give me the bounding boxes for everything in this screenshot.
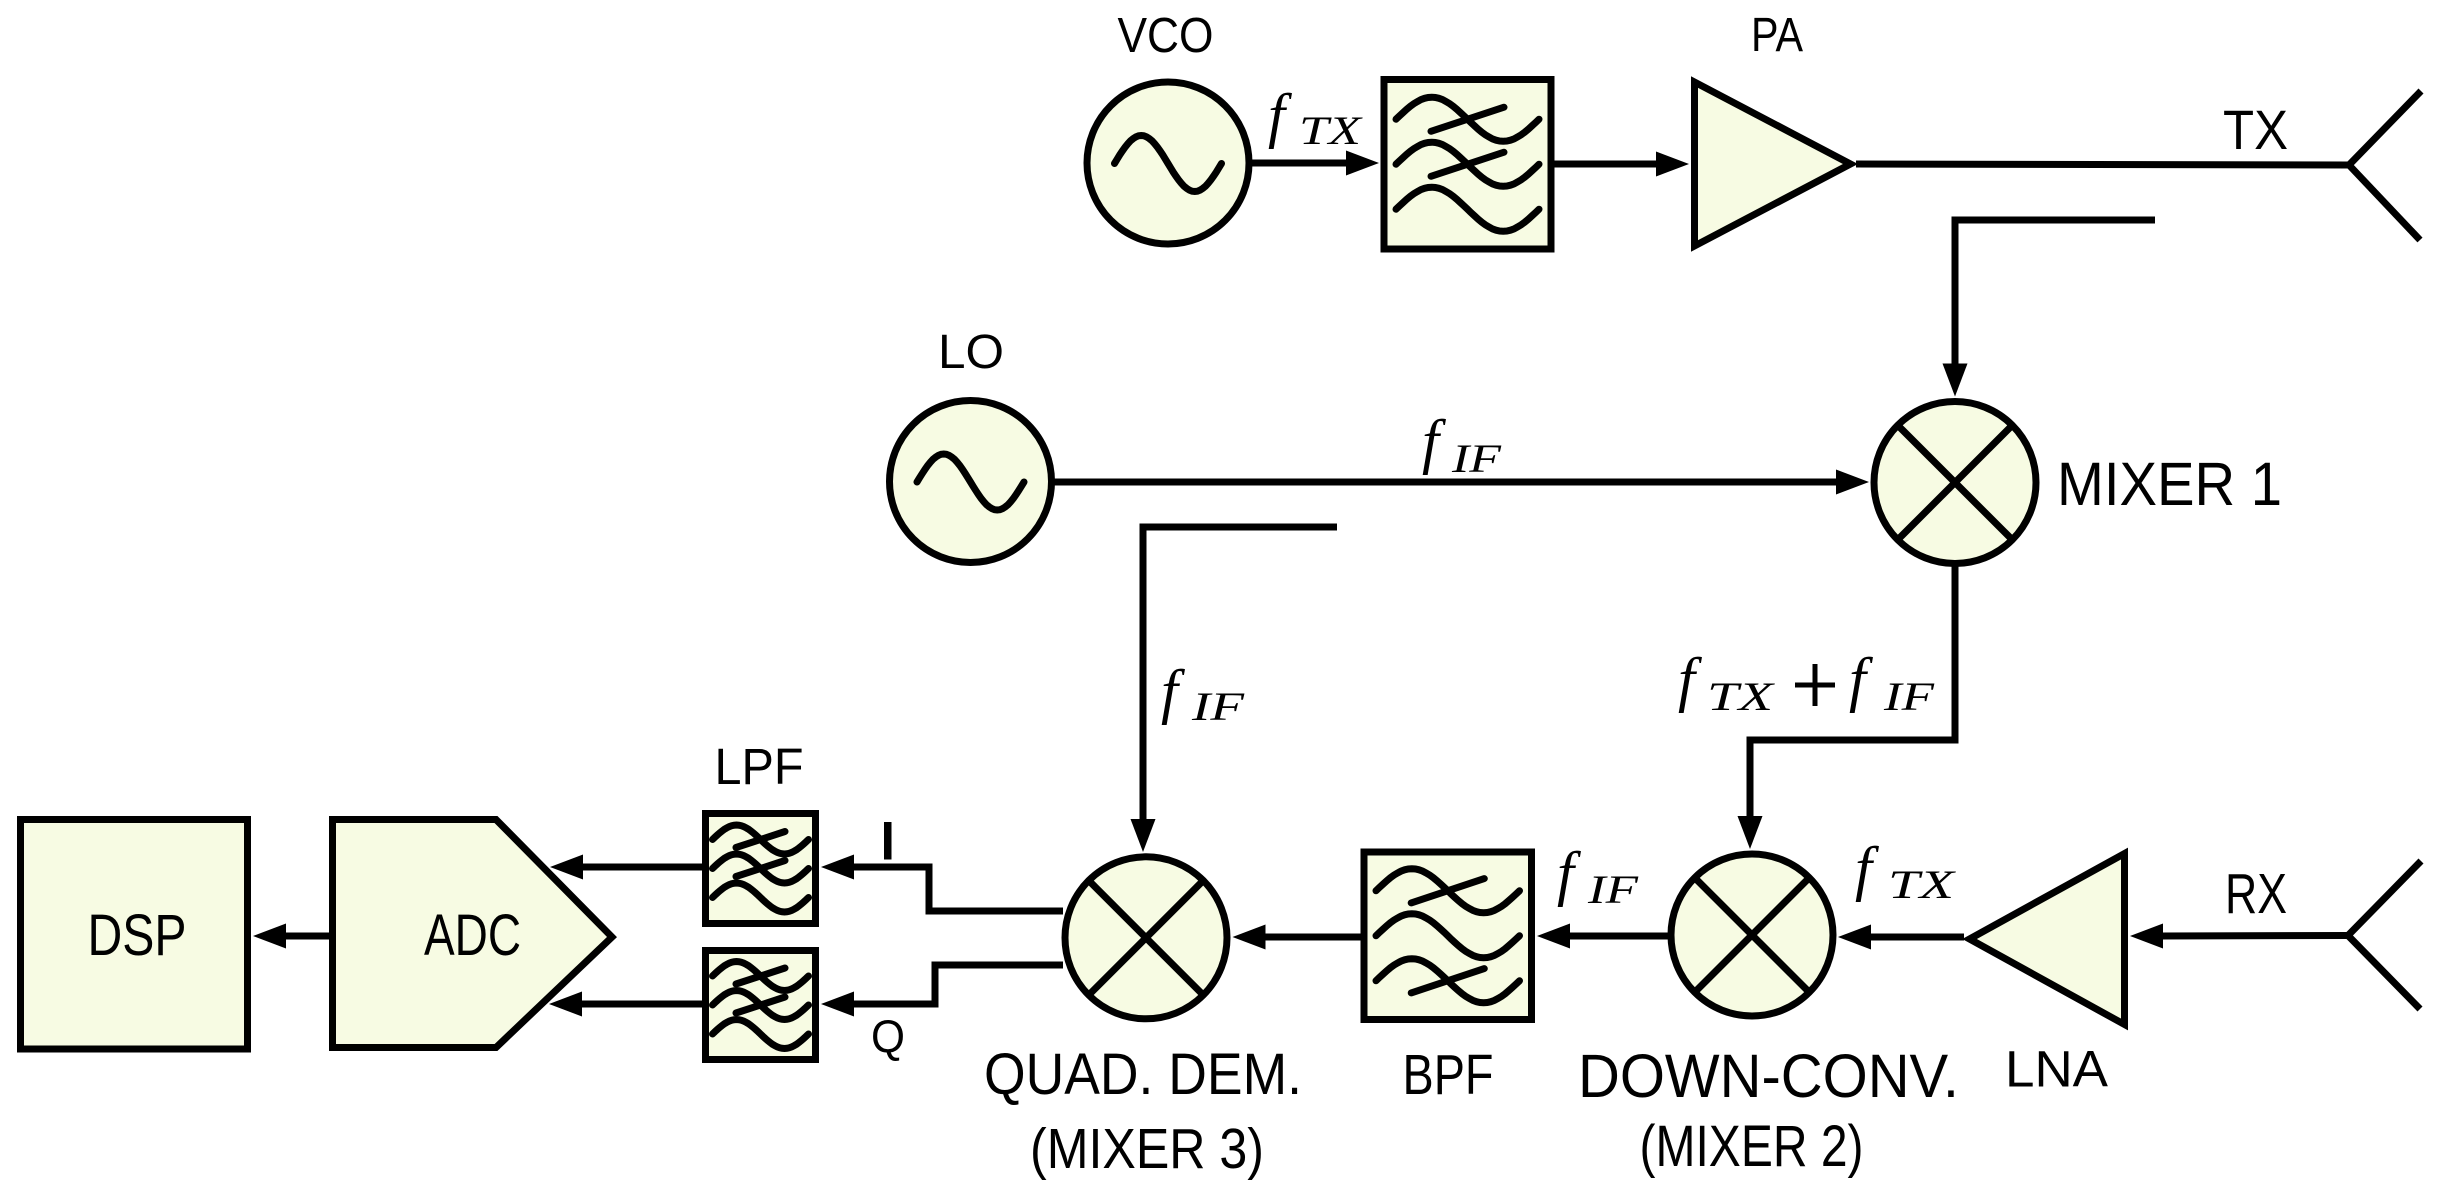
svg-text:LNA: LNA (2005, 1041, 2108, 1098)
svg-text:PA: PA (1751, 9, 1803, 62)
svg-text:LPF: LPF (715, 738, 804, 795)
svg-text:RX: RX (2225, 863, 2287, 926)
svg-text:IF: IF (1451, 436, 1502, 481)
svg-text:DOWN-CONV.: DOWN-CONV. (1578, 1042, 1959, 1110)
svg-text:TX: TX (2223, 99, 2288, 161)
svg-text:IF: IF (1883, 674, 1935, 719)
svg-text:BPF: BPF (1403, 1044, 1494, 1107)
svg-text:DSP: DSP (88, 903, 187, 968)
svg-text:Q: Q (871, 1010, 905, 1062)
svg-text:MIXER 1: MIXER 1 (2057, 450, 2282, 518)
svg-text:(MIXER 2): (MIXER 2) (1640, 1114, 1864, 1179)
svg-text:VCO: VCO (1118, 8, 1214, 63)
svg-text:IF: IF (1587, 867, 1639, 912)
svg-text:IF: IF (1191, 684, 1245, 729)
svg-text:TX: TX (1888, 862, 1956, 907)
svg-text:ADC: ADC (424, 903, 521, 968)
svg-text:TX: TX (1707, 674, 1775, 719)
svg-text:QUAD. DEM.: QUAD. DEM. (984, 1042, 1302, 1107)
svg-text:(MIXER 3): (MIXER 3) (1030, 1118, 1264, 1181)
svg-text:TX: TX (1299, 108, 1363, 153)
svg-text:LO: LO (938, 326, 1004, 379)
